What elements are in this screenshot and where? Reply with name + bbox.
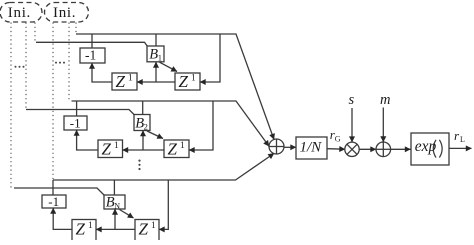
svg-text:-1: -1 xyxy=(85,47,96,62)
svg-text:Z: Z xyxy=(179,72,189,91)
svg-text:1: 1 xyxy=(191,74,196,84)
svg-text:L: L xyxy=(460,135,465,144)
svg-text:1/N: 1/N xyxy=(300,139,323,155)
svg-text:exp: exp xyxy=(415,138,437,155)
svg-text:Z: Z xyxy=(139,220,149,239)
svg-text:Z: Z xyxy=(76,220,86,239)
svg-text:Z: Z xyxy=(168,140,178,159)
svg-text:-1: -1 xyxy=(70,115,81,130)
svg-text:-1: -1 xyxy=(48,194,59,209)
svg-text:1: 1 xyxy=(128,74,133,84)
svg-text:G: G xyxy=(335,134,341,143)
svg-text:m: m xyxy=(380,92,390,108)
svg-text:s: s xyxy=(349,92,355,108)
svg-text:1: 1 xyxy=(180,141,185,151)
svg-text:Ini.: Ini. xyxy=(53,5,76,21)
svg-text:N: N xyxy=(114,202,120,211)
svg-text:2: 2 xyxy=(144,122,148,132)
svg-text:Z: Z xyxy=(102,140,112,159)
svg-text:Ini.: Ini. xyxy=(8,5,31,21)
svg-text:1: 1 xyxy=(151,221,156,231)
svg-text:Z: Z xyxy=(116,72,126,91)
svg-text:1: 1 xyxy=(158,53,162,63)
svg-text:1: 1 xyxy=(88,221,93,231)
svg-text:1: 1 xyxy=(114,141,119,151)
